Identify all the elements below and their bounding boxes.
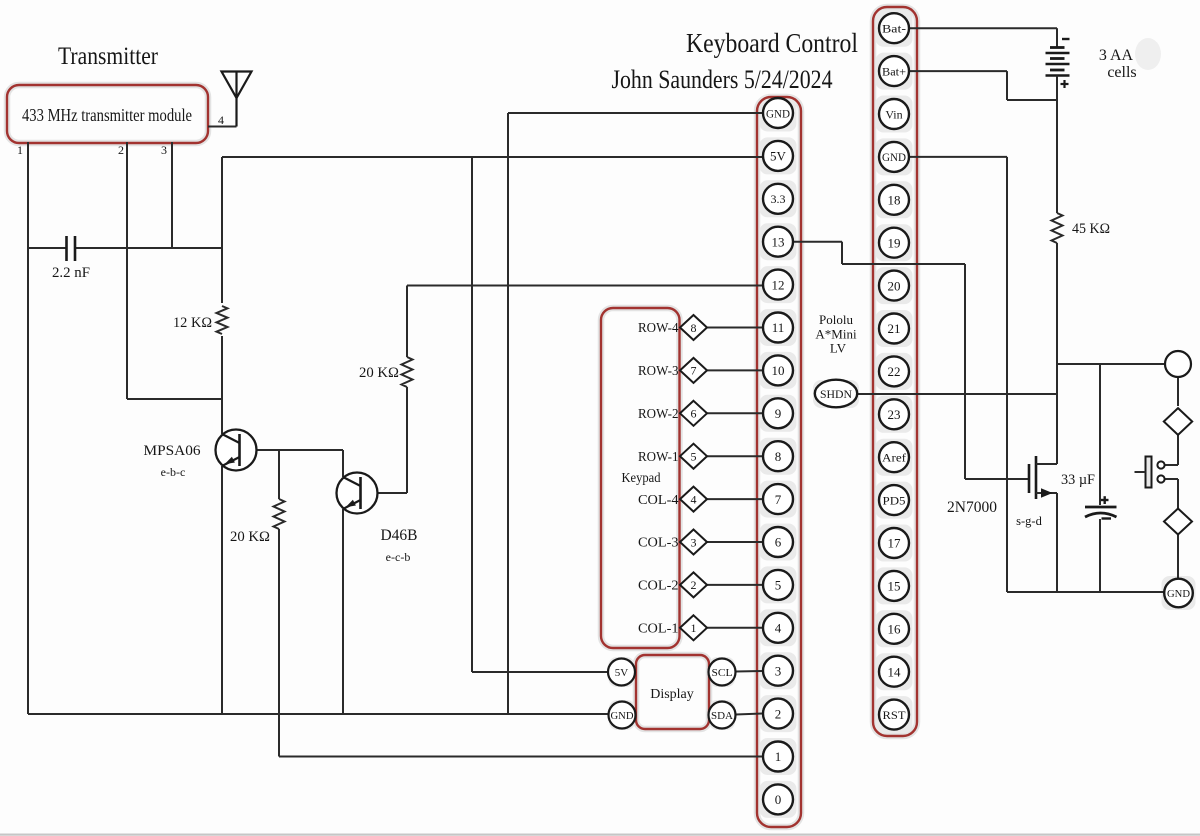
svg-text:Keypad: Keypad	[622, 471, 661, 486]
svg-text:22: 22	[888, 364, 901, 379]
svg-text:11: 11	[772, 320, 785, 335]
svg-text:5V: 5V	[770, 149, 787, 164]
svg-text:2N7000: 2N7000	[947, 499, 997, 516]
svg-text:SCL: SCL	[712, 667, 733, 679]
svg-text:3: 3	[161, 143, 167, 157]
svg-text:s-g-d: s-g-d	[1016, 514, 1042, 528]
svg-text:GND: GND	[1167, 588, 1190, 600]
svg-text:16: 16	[888, 621, 902, 636]
svg-text:Aref: Aref	[882, 451, 906, 465]
svg-text:Display: Display	[650, 687, 694, 702]
svg-text:GND: GND	[882, 150, 906, 164]
svg-text:COL-4: COL-4	[638, 493, 679, 508]
svg-text:3: 3	[775, 663, 782, 678]
svg-text:Transmitter: Transmitter	[58, 43, 159, 70]
svg-text:0: 0	[775, 792, 782, 807]
svg-text:e-c-b: e-c-b	[386, 550, 411, 564]
svg-text:433 MHz transmitter module: 433 MHz transmitter module	[22, 105, 192, 125]
svg-text:12 KΩ: 12 KΩ	[173, 315, 212, 331]
svg-text:1: 1	[691, 621, 697, 635]
svg-text:15: 15	[888, 579, 901, 594]
svg-text:3: 3	[691, 535, 697, 549]
svg-text:20 KΩ: 20 KΩ	[230, 529, 270, 545]
svg-text:7: 7	[691, 364, 697, 378]
svg-text:MPSA06: MPSA06	[144, 443, 202, 459]
svg-text:Bat-: Bat-	[882, 22, 906, 36]
svg-text:4: 4	[691, 492, 697, 506]
svg-text:GND: GND	[766, 106, 790, 120]
svg-text:45 KΩ: 45 KΩ	[1072, 221, 1110, 237]
svg-text:6: 6	[775, 535, 782, 550]
svg-text:ROW-1: ROW-1	[638, 450, 679, 465]
svg-text:ROW-3: ROW-3	[638, 364, 679, 379]
svg-text:ROW-2: ROW-2	[638, 407, 679, 422]
svg-text:Keyboard Control: Keyboard Control	[686, 28, 858, 58]
svg-text:e-b-c: e-b-c	[161, 465, 186, 479]
svg-text:John Saunders 5/24/2024: John Saunders 5/24/2024	[612, 65, 833, 94]
svg-text:3.3: 3.3	[771, 192, 786, 206]
svg-text:RST: RST	[883, 708, 907, 722]
svg-text:6: 6	[691, 407, 697, 421]
svg-text:SDA: SDA	[711, 710, 733, 722]
svg-text:5: 5	[775, 578, 782, 593]
svg-text:cells: cells	[1107, 64, 1136, 81]
svg-text:18: 18	[888, 192, 901, 207]
svg-text:21: 21	[888, 321, 901, 336]
svg-text:GND: GND	[611, 710, 634, 722]
svg-text:LV: LV	[830, 341, 847, 356]
svg-text:13: 13	[772, 234, 785, 249]
svg-text:20: 20	[888, 278, 901, 293]
svg-text:5: 5	[691, 450, 697, 464]
svg-text:23: 23	[888, 407, 901, 422]
svg-text:33 µF: 33 µF	[1061, 472, 1095, 488]
svg-text:Vin: Vin	[885, 107, 902, 121]
svg-text:COL-1: COL-1	[638, 622, 679, 637]
svg-text:10: 10	[772, 363, 785, 378]
svg-text:Bat+: Bat+	[882, 64, 906, 78]
svg-text:SHDN: SHDN	[820, 387, 852, 401]
svg-text:1: 1	[17, 143, 23, 157]
svg-text:20 KΩ: 20 KΩ	[359, 365, 399, 381]
svg-text:2: 2	[118, 143, 124, 157]
svg-text:3 AA: 3 AA	[1099, 47, 1134, 64]
svg-text:17: 17	[888, 536, 902, 551]
svg-text:2: 2	[775, 706, 782, 721]
svg-text:12: 12	[772, 277, 785, 292]
svg-text:8: 8	[691, 321, 697, 335]
svg-text:4: 4	[218, 113, 224, 127]
svg-text:COL-2: COL-2	[638, 579, 679, 594]
svg-text:Pololu: Pololu	[819, 312, 853, 327]
svg-text:1: 1	[775, 749, 782, 764]
svg-text:5V: 5V	[615, 667, 629, 679]
svg-text:2.2 nF: 2.2 nF	[52, 265, 90, 281]
svg-text:7: 7	[775, 492, 782, 507]
svg-text:ROW-4: ROW-4	[638, 321, 679, 336]
svg-text:D46B: D46B	[380, 527, 417, 544]
svg-text:COL-3: COL-3	[638, 536, 679, 551]
svg-text:9: 9	[775, 406, 782, 421]
svg-text:8: 8	[775, 449, 782, 464]
svg-text:4: 4	[775, 620, 782, 635]
svg-text:14: 14	[888, 664, 902, 679]
svg-text:19: 19	[888, 235, 901, 250]
svg-text:2: 2	[691, 578, 697, 592]
svg-text:PD5: PD5	[883, 493, 906, 507]
svg-text:A*Mini: A*Mini	[815, 327, 857, 342]
